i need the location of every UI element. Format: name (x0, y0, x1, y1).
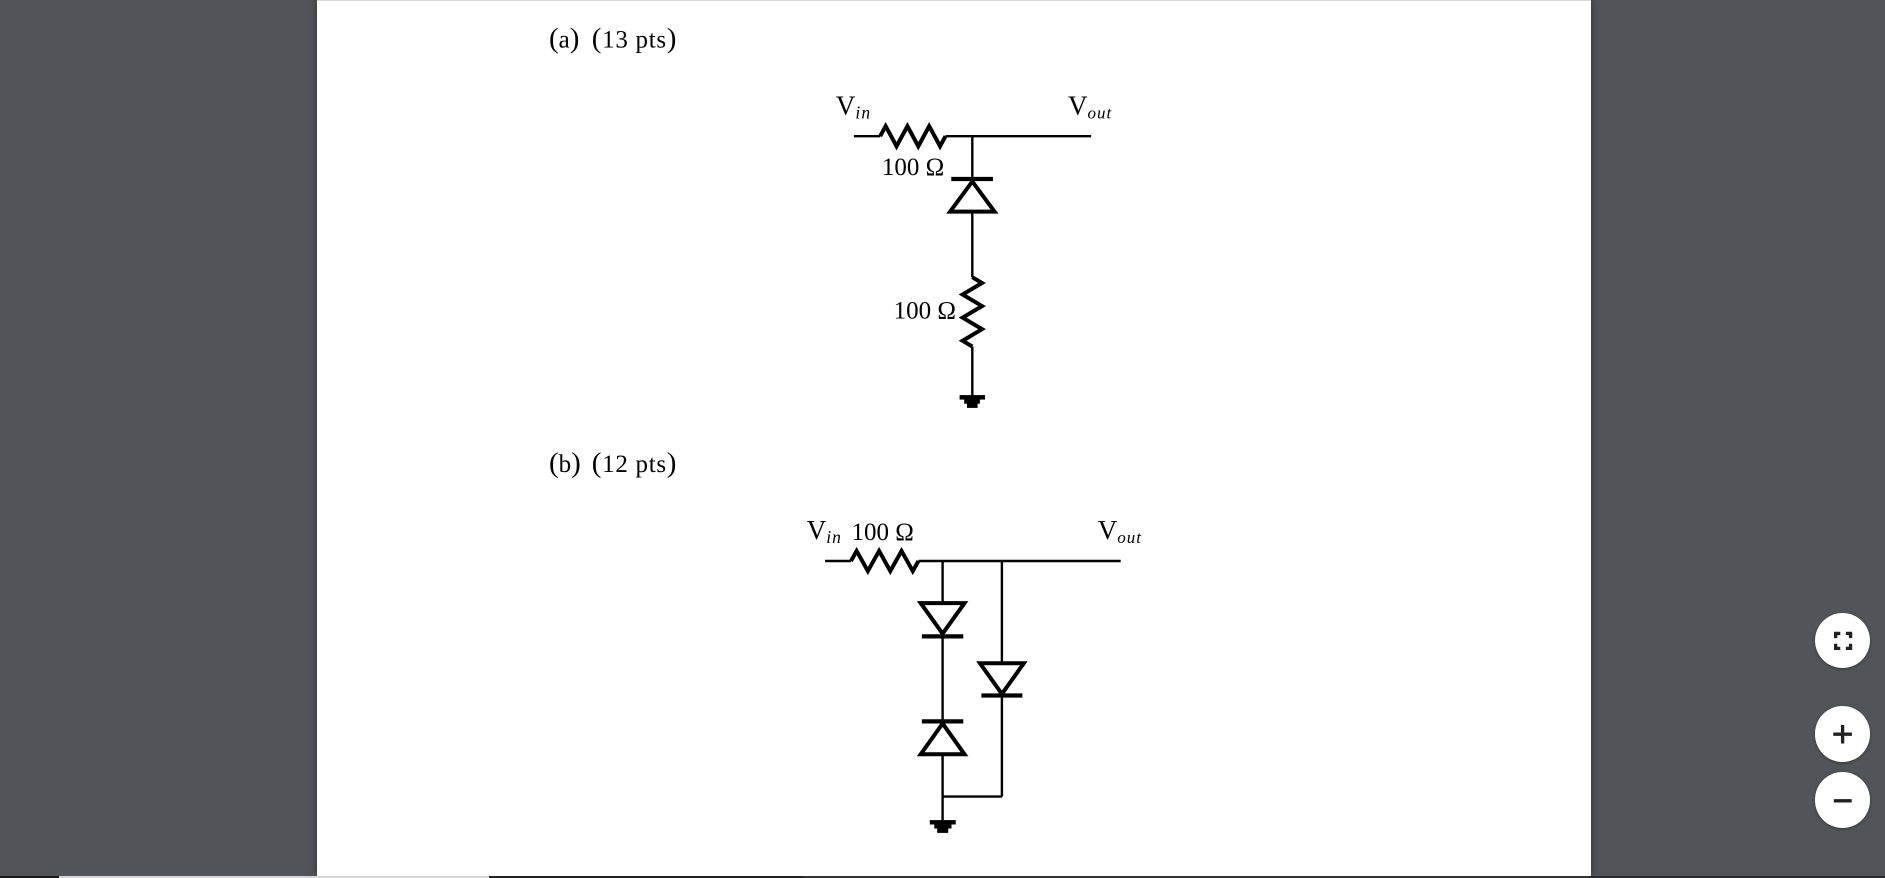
resistor R3 100 ohm horizontal (b) (851, 551, 918, 571)
ground symbol (a) (960, 395, 985, 408)
zoom-in button (1815, 706, 1871, 762)
fullscreen button (1815, 613, 1871, 669)
zoom-out button (1815, 772, 1871, 828)
svg-text:(a): (a) (549, 23, 579, 55)
bottom strip segment: dark left corner (0, 876, 59, 878)
page top edge line (317, 0, 1591, 1)
wire diode to resistor (a) (971, 212, 973, 278)
svg-text:100 Ω: 100 Ω (852, 519, 914, 546)
svg-text:Vout: Vout (1068, 91, 1113, 123)
svg-text:Vin: Vin (836, 91, 871, 123)
svg-text:(13 pts): (13 pts) (592, 23, 677, 55)
diode D2 cathode bar (b) (922, 634, 963, 638)
diode D2 triangle points down (b) (921, 603, 965, 634)
diode D1 triangle (a) (950, 182, 994, 212)
wire Vin lead (a) (854, 135, 880, 137)
wire D4 to bottom connector (b) (1001, 698, 1003, 797)
bottom strip segment: dark gray (489, 876, 803, 878)
wire D3 to bottom node (b) (941, 754, 943, 796)
wire bottom connector (b) (943, 795, 1002, 797)
bottom strip segment: right sidebar dark (1590, 876, 1885, 878)
wire node to Vout (a) (946, 135, 1092, 137)
zoom minus icon (1834, 799, 1852, 802)
wire node down to diode (a) (971, 136, 973, 177)
svg-text:100 Ω: 100 Ω (894, 297, 956, 324)
diode D1 cathode bar (a) (951, 177, 993, 181)
svg-text:Vout: Vout (1098, 515, 1143, 547)
wire right branch down to D4 (b) (1001, 561, 1003, 663)
page (PDF white page) (317, 0, 1591, 876)
wire Vin lead (b) (825, 560, 851, 562)
wire node to Vout (b) (918, 560, 1120, 562)
bottom strip segment: light gray (59, 876, 489, 878)
svg-text:(b): (b) (549, 447, 581, 479)
resistor R2 100 ohm vertical (a) (963, 277, 982, 346)
wire left branch down to D2 (b) (941, 561, 943, 603)
ground symbol (b) (930, 820, 956, 833)
diode D3 triangle points up (b) (921, 724, 965, 755)
diode D4 triangle points down (b) (980, 663, 1024, 694)
fullscreen icon (1836, 633, 1851, 648)
wire node to ground (b) (941, 797, 943, 821)
bottom strip segment: mid gray (803, 876, 1590, 878)
svg-text:100 Ω: 100 Ω (882, 154, 944, 181)
resistor R1 100 ohm horizontal (a) (880, 126, 945, 146)
diode D3 cathode bar (b) (922, 719, 963, 723)
svg-text:(12 pts): (12 pts) (592, 447, 677, 479)
svg-text:Vin: Vin (807, 515, 842, 547)
zoom plus icon (1833, 725, 1852, 744)
diode D4 cathode bar (b) (981, 693, 1022, 697)
wire resistor to ground (a) (971, 347, 973, 396)
wire D2 to D3 (b) (941, 639, 943, 720)
